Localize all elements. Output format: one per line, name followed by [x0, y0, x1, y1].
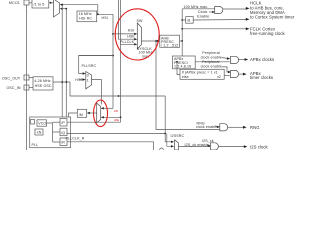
svg-text:PLLSRC: PLLSRC — [82, 64, 97, 68]
svg-text:clock enable: clock enable — [201, 64, 222, 68]
divider /8 — [186, 17, 194, 24]
wire OSC_IN stub — [29, 87, 33, 89]
wire I2S source dropper — [164, 96, 166, 134]
gate AND APBx clocks — [231, 56, 239, 63]
svg-text:16 MHz: 16 MHz — [79, 12, 92, 16]
pin circle cropped at bottom — [160, 148, 164, 152]
svg-text:clock enable: clock enable — [196, 125, 217, 129]
wire MCO1 mux input 1 (HSI) — [63, 4, 98, 6]
wire second I2S mux input — [167, 134, 171, 147]
wire MCO1 pin to divider — [29, 2, 32, 4]
svg-text:HSE: HSE — [127, 35, 135, 39]
red ellipse highlight PLL input mux — [94, 100, 108, 127]
PLL block — [30, 117, 71, 148]
svg-text:timer clocks: timer clocks — [250, 75, 273, 80]
svg-text:to Cortex System timer: to Cortex System timer — [250, 15, 295, 20]
wire APBx clocks output — [238, 59, 245, 61]
svg-text:clock enable: clock enable — [201, 55, 222, 59]
pin MCO1 — [24, 0, 29, 5]
wire HCLK output — [223, 8, 246, 10]
wire I2S clock output — [218, 146, 244, 148]
multiplier timer box — [180, 69, 224, 79]
wire HSE output — [53, 81, 70, 83]
svg-text:xN: xN — [37, 131, 42, 135]
wire HSI into red mux input 1 — [102, 107, 113, 109]
wire PLLCLK riser x120.5 — [121, 0, 135, 44]
wire HCLK top line — [182, 8, 215, 10]
wire PLL P output to SW PLLCLK riser — [67, 121, 121, 123]
wire top feed line to PLLSRC — [79, 55, 113, 57]
svg-text:I2SSRC: I2SSRC — [171, 134, 185, 138]
wire VCO to dividers — [47, 123, 53, 142]
mux I2SSRC — [175, 140, 179, 150]
prescaler APBx — [173, 56, 196, 69]
mux PLLSRC — [86, 72, 92, 89]
svg-text:PLL: PLL — [32, 143, 39, 147]
svg-text:MCO1: MCO1 — [9, 1, 20, 5]
wire AHB presc output riser — [180, 9, 183, 41]
wire HSE corner down to y96 — [70, 82, 165, 96]
svg-text:/M: /M — [79, 113, 83, 117]
svg-text:/Q: /Q — [61, 131, 65, 135]
VCO box — [37, 120, 47, 126]
wire AHB to APBx prescaler dropper — [181, 41, 183, 56]
svg-text:/ 1,2 ..512: / 1,2 ..512 — [161, 44, 178, 48]
xN box — [35, 129, 43, 135]
wire HSI branch to PLLSRC mux — [79, 56, 113, 74]
svg-text:100 MHz max.: 100 MHz max. — [184, 5, 209, 9]
wire enable 1 arrow — [222, 57, 228, 60]
wire PLLSRC output down — [92, 80, 102, 105]
wire dropper to timer multiplier box — [177, 62, 180, 75]
mux SW system clock — [137, 23, 141, 49]
wire clock enable stub into HCLK gate — [209, 11, 213, 13]
svg-text:HSE OSC: HSE OSC — [35, 84, 52, 88]
svg-text:OSC_OUT: OSC_OUT — [2, 76, 21, 80]
divider /P — [60, 119, 67, 127]
red ellipse highlight SW mux — [115, 9, 159, 60]
wire OSC_OUT stub — [29, 77, 33, 79]
svg-text:HSE: HSE — [114, 118, 120, 122]
wire vertical HSE riser x61 — [61, 5, 63, 117]
wire RNG output — [228, 126, 243, 128]
svg-text:0: 0 — [87, 73, 89, 77]
divider /R — [60, 138, 67, 146]
svg-text:APBx clocks: APBx clocks — [250, 57, 274, 62]
svg-text:RNG: RNG — [250, 125, 260, 130]
wire MCO1 mux input 2 (HSE) — [63, 8, 68, 10]
wire HSI output — [97, 13, 113, 15]
svg-text:OSC_IN: OSC_IN — [7, 86, 21, 90]
svg-text:Enable: Enable — [197, 14, 209, 18]
svg-text:/8: /8 — [187, 19, 190, 23]
divider /1 to 5 — [32, 0, 49, 8]
wire Cortex system timer line — [193, 19, 246, 22]
svg-text:/1 to 5: /1 to 5 — [34, 2, 45, 6]
wire RNG enable into gate — [215, 125, 218, 128]
pin OSC_OUT — [24, 75, 29, 80]
wire red mux output to /M — [89, 112, 97, 114]
svg-text:/R: /R — [61, 141, 65, 145]
svg-text:1: 1 — [87, 79, 89, 83]
wire HSI vertical dropper x113 — [112, 14, 114, 108]
svg-text:I2S clock: I2S clock — [250, 144, 269, 149]
wire SYSCLK dropper x156 — [156, 41, 220, 130]
svg-text:HSE: HSE — [75, 78, 83, 82]
svg-text:x2: x2 — [217, 75, 221, 79]
wire HSE riser x118.5 from top to SW mux — [119, 0, 135, 39]
wire I2S enable stub into gate — [207, 144, 210, 146]
svg-text:SW: SW — [137, 19, 144, 23]
gate AND HCLK clock enable — [215, 7, 223, 14]
wire SYSCLK to AHB prescaler — [142, 40, 160, 42]
svg-text:HSI RC: HSI RC — [79, 17, 92, 21]
wire FCLK line — [182, 28, 246, 30]
PLL input stub box — [31, 120, 35, 125]
wire HSI up corner from HSI RC output — [96, 5, 99, 15]
wire divider to MCO1 mux — [49, 2, 54, 4]
wire vertical HSE riser x66.5 — [65, 9, 67, 123]
wire PLL Q output line — [67, 133, 165, 135]
wire long vertical from MCO1 pin to bottom — [26, 5, 28, 150]
wire /M output into PLL — [69, 113, 78, 117]
svg-text:4-26 MHz: 4-26 MHz — [34, 79, 51, 83]
pin OSC_IN — [24, 85, 29, 90]
svg-text:HSI: HSI — [114, 109, 119, 113]
gate AND I2S clock — [211, 143, 219, 150]
oscillator HSE 4-26 MHz — [33, 77, 53, 90]
wire timer box output to gate — [224, 75, 230, 77]
mux PLL input (highlighted) — [97, 103, 101, 123]
oscillator HSI RC 16 MHz — [77, 11, 97, 22]
svg-text:PLLCLK: PLLCLK — [120, 40, 135, 44]
wire enable 2 elbow to timer gate — [222, 67, 229, 72]
wire HSE into PLLSRC mux input 1 — [79, 79, 83, 81]
svg-text:I2S_ck enable: I2S_ck enable — [185, 143, 209, 147]
svg-text:free-running clock: free-running clock — [250, 31, 286, 36]
wire APBx timer clocks output — [238, 73, 243, 75]
gate AND APBx timer clocks — [231, 70, 239, 77]
svg-text:1,2,4,8,16: 1,2,4,8,16 — [174, 65, 191, 69]
svg-text:Clock: Clock — [198, 10, 208, 14]
divider /Q — [60, 128, 67, 136]
prescaler AHB — [160, 35, 180, 47]
wire APBx presc output — [195, 61, 230, 63]
wire HSI into SW mux — [113, 33, 135, 35]
svg-text:HSI: HSI — [102, 16, 108, 20]
gate AND RNG clock — [220, 124, 228, 131]
wire into red mux input 2 — [102, 116, 121, 118]
mux MCO1 — [54, 0, 60, 17]
svg-text:/P: /P — [61, 121, 65, 125]
svg-text:else: else — [182, 75, 189, 79]
svg-text:VCO: VCO — [38, 122, 46, 126]
svg-text:HSI: HSI — [128, 29, 134, 33]
wire I2S mux output — [179, 145, 211, 147]
divider /M — [77, 109, 86, 117]
wire PLL R output — [67, 142, 154, 150]
svg-text:PLLCLK_R: PLLCLK_R — [66, 137, 85, 141]
